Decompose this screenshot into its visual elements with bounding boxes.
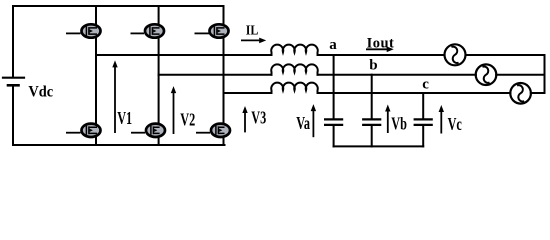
- capacitor branch C lower wire: [422, 126, 424, 147]
- arrow Va: [311, 104, 316, 137]
- phase c wire (leg3 to coil): [224, 92, 272, 94]
- transistor S3 (top leg2): [131, 24, 165, 37]
- transistor S1 (top leg1): [66, 24, 101, 37]
- top DC rail: [13, 5, 224, 7]
- svg-text:Iout: Iout: [367, 35, 395, 51]
- svg-text:b: b: [369, 58, 377, 74]
- AC source G3: [510, 83, 531, 104]
- phase c wire (coil to source G3): [318, 92, 511, 94]
- left DC rail lower segment: [12, 86, 14, 146]
- arrow IL: [241, 38, 266, 44]
- capacitor branch B upper wire: [371, 75, 373, 119]
- svg-text:c: c: [422, 77, 429, 93]
- AC source G1: [445, 44, 466, 65]
- AC source G2: [476, 64, 497, 85]
- leg 1 wire: [95, 6, 97, 145]
- phase a wire (source G1 to right bus): [466, 54, 545, 56]
- svg-text:Vdc: Vdc: [28, 83, 53, 101]
- phase a wire (leg1 to coil): [96, 54, 272, 56]
- battery Vdc short plate: [8, 84, 19, 87]
- arrow Vb: [385, 105, 390, 134]
- inductor Lc: [271, 83, 318, 93]
- capacitor branch C upper wire: [422, 93, 424, 119]
- transistor S2 (bottom leg3): [196, 124, 230, 137]
- svg-text:V2: V2: [180, 110, 195, 130]
- transistor S4 (bottom leg1): [66, 124, 101, 137]
- capacitor Cc plates: [415, 119, 432, 125]
- phase c wire (source G3 to right bus): [531, 92, 545, 94]
- capacitor branch B lower wire: [371, 126, 373, 147]
- right bus wire: [544, 55, 546, 93]
- phase b wire (coil to source G2): [318, 74, 476, 76]
- svg-text:Vc: Vc: [448, 115, 462, 135]
- svg-text:V1: V1: [117, 109, 132, 129]
- phase a wire (coil to source G1): [318, 54, 445, 56]
- inductor Lb: [271, 64, 318, 74]
- battery Vdc long plate: [3, 77, 24, 79]
- leg 2 wire: [158, 6, 160, 145]
- capacitor branch A upper wire: [333, 55, 335, 119]
- capacitor Cb plates: [363, 119, 380, 125]
- bottom DC rail: [13, 144, 225, 146]
- svg-text:a: a: [329, 37, 337, 53]
- capacitor neutral bus wire: [334, 145, 424, 147]
- svg-text:V3: V3: [251, 108, 266, 128]
- svg-text:Vb: Vb: [391, 114, 407, 134]
- left DC rail upper segment: [12, 6, 14, 77]
- arrow Vc: [439, 105, 444, 134]
- phase b wire (leg2 to coil): [159, 74, 272, 76]
- svg-text:IL: IL: [246, 22, 259, 38]
- inductor La: [271, 45, 318, 55]
- arrow V1: [112, 60, 117, 133]
- capacitor branch A lower wire: [333, 126, 335, 147]
- transistor S6 (bottom leg2): [131, 124, 165, 137]
- phase b wire (source G2 to right bus): [496, 74, 544, 76]
- arrow V2: [171, 86, 176, 134]
- capacitor Ca plates: [325, 119, 342, 125]
- arrow V3: [242, 106, 247, 132]
- transistor S5 (top leg3): [195, 24, 229, 37]
- arrow Iout underline: [366, 47, 394, 53]
- svg-text:Va: Va: [296, 114, 310, 134]
- leg 3 wire: [223, 6, 225, 145]
